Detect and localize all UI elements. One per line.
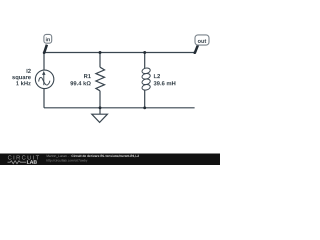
wire I2 top lead [43,53,45,71]
wire I2 bottom lead [43,88,45,108]
node flag out [193,35,209,54]
inductor L2 [141,53,150,108]
L2 coil turn 1 [141,67,150,74]
R1 zigzag body [96,67,105,91]
I2 arrow shaft [43,73,45,85]
in flag pointer [44,45,47,53]
resistor R1 [96,53,105,108]
label L2 name [154,74,160,78]
label L2 value 39.6 mH [154,81,176,85]
wire bottom horizontal [44,107,195,109]
I2 arrow head [42,71,45,75]
I2 wave glyph [39,77,50,85]
CircuitLab logo CIRCUIT [8,155,12,159]
L2 coil turn 4 [141,84,150,91]
in flag text [46,37,50,41]
footer bar [0,154,220,166]
current source I2 [35,70,54,89]
wire top horizontal [44,52,195,54]
L2 coil turn 2 [141,73,150,80]
label I2 name [27,69,31,73]
label R1 value 99.4 kOhm [70,81,90,85]
wire L2 bottom lead [144,90,146,108]
wire ground stub [99,108,101,114]
footer url line [47,159,88,162]
out flag text [198,39,206,43]
node out junction [193,51,196,54]
ground [92,108,108,123]
footer title line [47,155,71,158]
wire R1 top lead [99,53,101,68]
junction dot bottom L2 [143,106,146,109]
out flag pointer [195,45,198,53]
node in junction [43,51,46,54]
label I2 value 1 kHz [16,81,31,85]
label I2 value square [12,76,31,80]
label R1 name [84,74,91,78]
wire L2 top lead [144,53,146,69]
in flag box [44,34,52,43]
node flag in [43,34,52,54]
I2 circle body [35,70,54,89]
out flag box [195,35,209,45]
junction dot top R1 [99,51,102,54]
L2 coil turn 3 [141,78,150,85]
ground triangle [92,114,108,122]
CircuitLab logo zigzag [8,161,27,164]
junction dot top L2 [143,51,146,54]
wire R1 bottom lead [99,91,101,108]
junction dot bottom ground [99,106,102,109]
CircuitLab logo LAB [27,160,37,164]
